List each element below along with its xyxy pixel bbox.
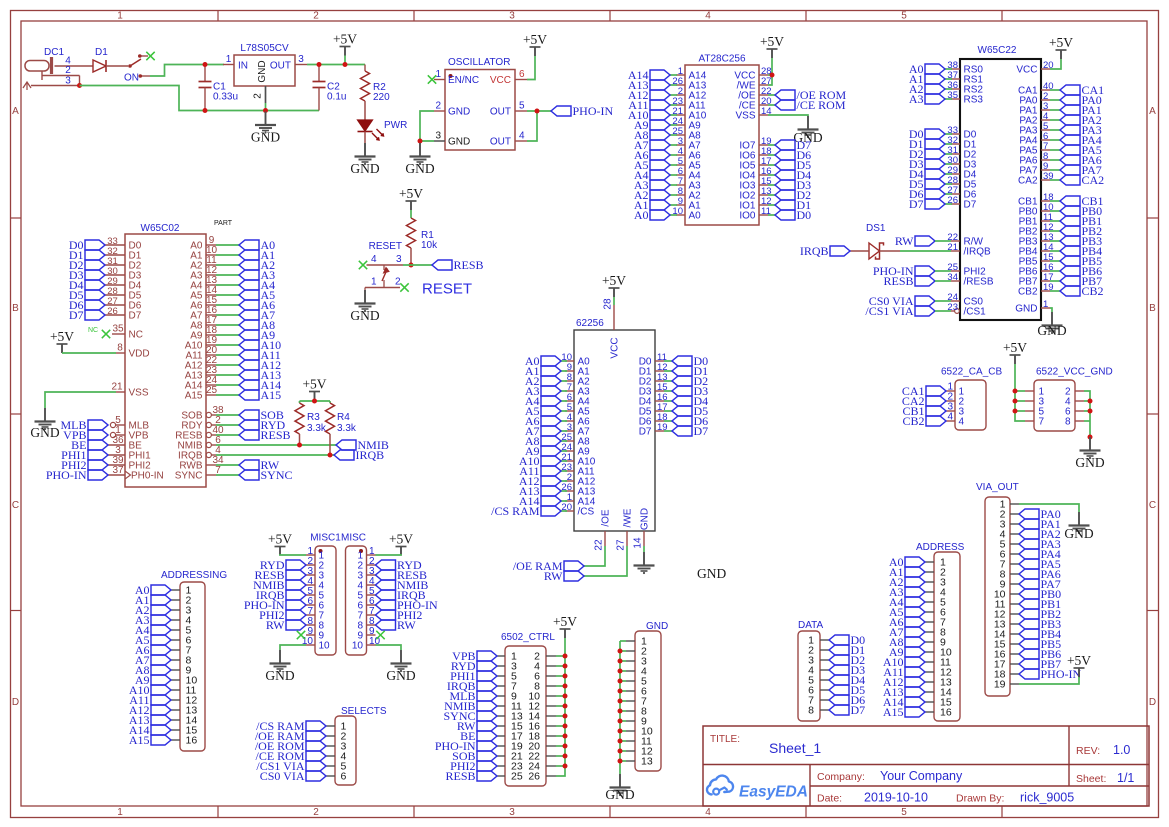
- svg-text:D0: D0: [797, 208, 812, 222]
- wire ground bus: [619, 641, 621, 774]
- pin 5: [497, 671, 517, 683]
- pin 12: [528, 701, 556, 713]
- svg-text:EasyEDA: EasyEDA: [739, 784, 808, 801]
- net flags PA/PB/PHO-IN at VIA_OUT: [1019, 507, 1081, 681]
- pin 1: [808, 635, 829, 647]
- svg-text:3: 3: [298, 54, 304, 65]
- pin 23 (A13): [185, 365, 218, 381]
- pin 8: [1000, 569, 1019, 581]
- net flags D7-D0 at ROM: [775, 138, 811, 222]
- pin 5: [626, 676, 647, 688]
- pin 9: [357, 626, 375, 642]
- pin 13: [925, 677, 952, 689]
- svg-text:2: 2: [435, 101, 441, 112]
- pin 1: [925, 557, 946, 569]
- pin 38 (RS0): [947, 60, 983, 76]
- pin 1 (A14): [676, 66, 707, 82]
- net flag RESB: [432, 258, 484, 272]
- pin 26 (D7): [105, 306, 142, 322]
- pin 3: [1000, 519, 1019, 531]
- pin 2 GND: [434, 101, 470, 118]
- wire DC1 ground rail: [80, 86, 320, 111]
- svg-text:A15: A15: [883, 705, 904, 719]
- pin 7: [1025, 417, 1045, 428]
- svg-text:SYNC: SYNC: [261, 468, 293, 482]
- svg-text:5: 5: [519, 101, 525, 112]
- wire pin1 to +5V: [280, 554, 306, 555]
- svg-text:+5V: +5V: [553, 614, 577, 629]
- pin 8: [171, 655, 192, 667]
- pin 10: [994, 589, 1019, 601]
- pin 31 (D2): [947, 145, 976, 161]
- svg-text:+5V: +5V: [399, 186, 423, 201]
- junction: [203, 62, 208, 67]
- junction: [1088, 435, 1093, 440]
- wires CA/PA pins to flags: [1050, 90, 1060, 180]
- svg-text:Your Company: Your Company: [880, 769, 963, 783]
- wire regulator OUT to +5V rail: [307, 64, 365, 66]
- pin 1: [326, 721, 347, 733]
- pin 2: [925, 567, 946, 579]
- wire +5V to VDD: [62, 352, 116, 354]
- pin 20 (A11): [185, 345, 217, 361]
- ground: [1037, 312, 1066, 338]
- svg-text:IN: IN: [238, 61, 248, 72]
- net flags D0-D7 at DATA: [829, 633, 865, 717]
- no-connect X: [376, 631, 384, 639]
- pin 32 (D1): [105, 246, 142, 262]
- pin 13 (A4): [190, 275, 217, 291]
- pin 35 (NC): [88, 324, 143, 341]
- pin 34 (RWB): [179, 455, 224, 471]
- pin 27 (/WE): [616, 508, 634, 556]
- svg-text:22: 22: [594, 539, 605, 551]
- pin 8 (VDD): [116, 343, 150, 360]
- svg-text:25: 25: [206, 385, 218, 396]
- pin 17 (D5): [639, 402, 668, 418]
- wire IRQB net: [216, 454, 334, 456]
- power +5V: [333, 32, 357, 56]
- pin 6: [808, 685, 829, 697]
- svg-text:GND: GND: [350, 161, 379, 176]
- pin 39 (PHI2): [108, 455, 151, 471]
- svg-text:8: 8: [808, 705, 814, 717]
- svg-text:+5V: +5V: [268, 532, 292, 547]
- pin 2: [1065, 387, 1084, 398]
- svg-text:CB2: CB2: [902, 414, 924, 428]
- pin 11: [626, 736, 652, 748]
- svg-text:3: 3: [396, 254, 402, 265]
- wire pin10 to ground: [280, 645, 306, 650]
- pin 15 (IO3): [739, 176, 771, 192]
- svg-text:DATA: DATA: [798, 620, 824, 631]
- svg-text:0.1u: 0.1u: [327, 92, 346, 103]
- svg-text:A3: A3: [909, 92, 924, 106]
- pin 18: [528, 731, 556, 743]
- pin 10: [925, 647, 952, 659]
- pin 15 (A6): [190, 295, 217, 311]
- pin 12 (D1): [639, 362, 668, 378]
- pin 22 (A12): [185, 355, 218, 371]
- wire ground bus to pins 2 4 6 8: [1084, 391, 1090, 437]
- pin 2: [534, 651, 556, 663]
- svg-text:6522_CA_CB: 6522_CA_CB: [941, 367, 1002, 378]
- pin 22 (R/W): [947, 232, 983, 248]
- pin 1: [1000, 499, 1019, 511]
- pin 16 (D4): [639, 392, 668, 408]
- net flag RW: [544, 569, 584, 583]
- pin 32 (D1): [947, 135, 976, 151]
- svg-text:0.33u: 0.33u: [213, 92, 238, 103]
- svg-text:10: 10: [319, 641, 331, 652]
- pin 4 (IRQB): [178, 445, 221, 461]
- pin 34 (/RESB): [947, 272, 993, 288]
- connector P1 6522_CA_CB: [941, 367, 1002, 431]
- svg-text:8: 8: [1065, 417, 1071, 428]
- svg-text:VSS: VSS: [129, 388, 149, 399]
- pin 6: [171, 635, 192, 647]
- pin 5: [306, 586, 325, 602]
- svg-text:+5V: +5V: [1003, 340, 1027, 355]
- pin 6: [1000, 549, 1019, 561]
- pin 4: [808, 665, 829, 677]
- wire OUT net PHO-IN: [527, 110, 551, 112]
- pin 13 (IO2): [739, 186, 771, 202]
- pin 3: [1025, 397, 1045, 408]
- svg-text:ON: ON: [124, 73, 139, 84]
- pin 7: [925, 617, 946, 629]
- svg-text:A0: A0: [689, 211, 702, 222]
- pin 7: [808, 695, 829, 707]
- svg-text:RESB: RESB: [454, 258, 484, 272]
- ground: [386, 650, 415, 683]
- pin 3 (A7): [565, 422, 590, 438]
- wire DS1 to /IRQB: [900, 250, 951, 252]
- svg-text:1: 1: [435, 69, 441, 80]
- ground: [405, 143, 434, 176]
- pin 4 (A6): [676, 146, 701, 162]
- svg-text:6: 6: [519, 69, 525, 80]
- pin 33 (D0): [947, 125, 976, 141]
- pin 16: [994, 649, 1019, 661]
- connector P3 VIA_OUT: [976, 482, 1019, 696]
- pin 5 (A5): [565, 402, 590, 418]
- net flags A0-A3 at VIA: [909, 62, 952, 106]
- wires CB/PB pins to flags: [1050, 201, 1060, 291]
- wire switch to regulator IN: [150, 65, 224, 77]
- pin 4: [326, 751, 347, 763]
- voltage regulator U1 L78S05CV: [223, 43, 307, 111]
- pin 19 (D7): [639, 422, 668, 438]
- svg-text:AT28C256: AT28C256: [698, 54, 746, 65]
- pin 4 (CB2): [946, 412, 965, 428]
- svg-text:3.3k: 3.3k: [307, 423, 327, 434]
- net flag /OE RAM: [513, 559, 584, 573]
- wires SOB RDY RESB RWB SYNC to flags: [216, 415, 239, 475]
- pin 20 (/CS): [561, 502, 594, 518]
- no-connect X: [359, 261, 367, 269]
- ground: [350, 143, 379, 176]
- pin 10 (A1): [190, 245, 217, 261]
- pin 5: [1025, 407, 1045, 418]
- pin 38 (SOB): [181, 405, 224, 421]
- svg-text:62256: 62256: [576, 318, 604, 329]
- svg-text:25: 25: [511, 771, 523, 783]
- pin 28 (VCC): [734, 66, 771, 82]
- svg-text:/CS RAM: /CS RAM: [491, 504, 540, 518]
- capacitor C1: [199, 65, 239, 111]
- pin 19 (CB2): [1018, 282, 1054, 298]
- pin 11: [171, 685, 197, 697]
- pin 16 (PB6): [1019, 262, 1054, 278]
- svg-text:35: 35: [112, 324, 124, 335]
- svg-text:TITLE:: TITLE:: [710, 734, 740, 745]
- svg-text:/CS1 VIA: /CS1 VIA: [865, 304, 913, 318]
- pin 7: [1000, 559, 1019, 571]
- pin 13: [171, 705, 197, 717]
- oscillator U2: [428, 57, 527, 150]
- pin 1 (VPB): [110, 425, 148, 441]
- pin 3 (PHI1): [108, 445, 151, 461]
- pin 10: [528, 691, 556, 703]
- pin 20: [528, 741, 556, 753]
- pin 16: [171, 735, 197, 747]
- net flag RESB: [883, 274, 935, 288]
- svg-text:C: C: [1149, 500, 1156, 511]
- wire +5V to R3 R4: [314, 400, 316, 403]
- svg-text:IRQB: IRQB: [800, 244, 829, 258]
- pin 11 (A2): [190, 255, 217, 271]
- svg-text:VCC: VCC: [490, 75, 511, 86]
- pin 6: [925, 607, 946, 619]
- svg-text:/CS1: /CS1: [964, 307, 987, 318]
- svg-text:GND: GND: [448, 137, 470, 148]
- net flag PHO-IN: [873, 264, 935, 278]
- power +5V: [302, 377, 326, 401]
- pin 6: [306, 596, 325, 612]
- svg-text:1/1: 1/1: [1117, 771, 1134, 785]
- svg-text:2: 2: [253, 93, 264, 99]
- junction: [263, 108, 268, 113]
- svg-text:3.3k: 3.3k: [337, 423, 357, 434]
- pin 25 (A8): [561, 432, 590, 448]
- svg-text:2: 2: [313, 807, 319, 818]
- pin 1: [171, 585, 192, 597]
- svg-text:Date:: Date:: [817, 793, 842, 805]
- pin 21: [497, 751, 523, 763]
- resistor R2 220: [361, 65, 391, 121]
- wires IO pins to flags: [768, 145, 775, 215]
- svg-text:RW: RW: [266, 618, 285, 632]
- svg-text:26: 26: [528, 771, 540, 783]
- ground: [1064, 512, 1093, 541]
- ground: [634, 552, 655, 574]
- pin 1 (GND): [1015, 299, 1050, 315]
- pin 2: [1000, 509, 1019, 521]
- pin 2: [326, 731, 347, 743]
- pin 14: [994, 629, 1019, 641]
- connector P5 ADDRESS: [916, 542, 965, 721]
- pin 28 (VCC): [603, 298, 621, 359]
- pin 10: [352, 636, 381, 652]
- svg-text:2019-10-10: 2019-10-10: [864, 791, 928, 805]
- svg-text:2: 2: [65, 65, 71, 76]
- svg-text:PART: PART: [214, 220, 233, 227]
- svg-text:PHO-IN: PHO-IN: [573, 104, 614, 118]
- resistor R3 3.3k: [295, 403, 327, 445]
- net flag NMIB: [336, 438, 389, 452]
- svg-text:D: D: [12, 697, 19, 708]
- pin 11 (D0): [639, 352, 667, 368]
- wire pin1 to ground: [1019, 504, 1079, 512]
- pin 3: [626, 656, 647, 668]
- wire VSS to ground: [768, 115, 808, 116]
- wire +5V bus right side: [556, 638, 565, 776]
- svg-text:EN/NC: EN/NC: [448, 75, 479, 86]
- svg-text:27: 27: [616, 539, 627, 551]
- pin 4: [925, 587, 946, 599]
- pin 4: [171, 615, 192, 627]
- pin 25 (A15): [185, 385, 218, 401]
- pin 5: [808, 675, 829, 687]
- svg-text:37: 37: [112, 465, 124, 476]
- pin 28 (D5): [947, 175, 976, 191]
- svg-text:D7: D7: [639, 427, 652, 438]
- power +5V: [1003, 340, 1027, 364]
- svg-text:RESB: RESB: [261, 428, 291, 442]
- pin 8: [1065, 417, 1084, 428]
- svg-text:28: 28: [603, 298, 614, 310]
- svg-text:REV:: REV:: [1076, 745, 1100, 757]
- pin 4: [626, 666, 647, 678]
- wire pin19 to +5V: [1019, 677, 1079, 684]
- power +5V: [602, 273, 626, 297]
- net flags at MISC2: [376, 558, 438, 632]
- pin 23 (A11): [561, 462, 595, 478]
- pin 6: [1065, 407, 1084, 418]
- svg-text:GND: GND: [350, 308, 379, 323]
- svg-text:DC1: DC1: [44, 47, 64, 58]
- pin 19: [497, 741, 523, 753]
- pin 25: [497, 771, 523, 783]
- svg-text:RW: RW: [895, 234, 914, 248]
- net flags SOB RYD RESB RW SYNC: [239, 408, 293, 482]
- pin 25 (A8): [672, 126, 701, 142]
- pin 9: [925, 637, 946, 649]
- pin 4: [1000, 529, 1019, 541]
- pin 5 (MLB): [110, 415, 149, 431]
- pin 24 (A14): [185, 375, 218, 391]
- svg-text:Sheet:: Sheet:: [1076, 773, 1106, 785]
- wires D pins to flags: [664, 361, 672, 431]
- svg-text:Sheet_1: Sheet_1: [769, 740, 821, 756]
- net flag RW: [895, 234, 935, 248]
- svg-text:CA2: CA2: [1082, 173, 1105, 187]
- pin 22 (/OE): [738, 86, 771, 102]
- pin 9: [171, 665, 192, 677]
- svg-text:RESB: RESB: [883, 274, 913, 288]
- power +5V: [1049, 35, 1073, 59]
- junction: [317, 62, 322, 67]
- pin 25 (PHI2): [947, 262, 986, 278]
- ground: [350, 290, 379, 323]
- connector P10 MISC1: [302, 533, 341, 656]
- svg-text:RW: RW: [397, 618, 416, 632]
- pin 13 (D2): [639, 372, 668, 388]
- junction: [770, 73, 775, 78]
- title block: [703, 726, 1149, 806]
- pin 17 (A8): [190, 315, 217, 331]
- pin 17: [994, 659, 1019, 671]
- net flags CA1 CA2 CB1 CB2: [902, 384, 946, 428]
- svg-text:MISC: MISC: [341, 533, 366, 544]
- pin 1 (A14): [565, 492, 596, 508]
- pin 17 (IO5): [739, 156, 771, 172]
- pin 24 (CS0): [947, 292, 983, 308]
- capacitor C2: [313, 65, 347, 111]
- pin 2: [808, 645, 829, 657]
- svg-text:3: 3: [509, 11, 515, 22]
- svg-text:NC: NC: [129, 330, 143, 341]
- pin 14: [171, 715, 197, 727]
- pin 2: [357, 556, 375, 572]
- pin 9: [306, 626, 325, 642]
- pin 2 (A12): [676, 86, 707, 102]
- pin 30 (D3): [947, 155, 976, 171]
- net flags CA1 PA0-PA7 CA2: [1060, 83, 1104, 187]
- no-connect X: [400, 283, 408, 291]
- pin 9 (A1): [565, 362, 590, 378]
- wire +5V to R1: [410, 210, 412, 218]
- svg-text:L78S05CV: L78S05CV: [240, 43, 289, 54]
- svg-text:IO0: IO0: [739, 211, 756, 222]
- ground: [265, 650, 294, 683]
- svg-text:2: 2: [313, 11, 319, 22]
- pin 18 (D6): [639, 412, 668, 428]
- svg-text:6522_VCC_GND: 6522_VCC_GND: [1036, 367, 1113, 378]
- svg-text:B: B: [1149, 303, 1156, 314]
- net flags A14-A0 at ROM: [628, 68, 677, 222]
- svg-text:14: 14: [633, 537, 644, 549]
- power +5V: [523, 32, 547, 56]
- svg-text:A0: A0: [634, 208, 649, 222]
- pin 15: [497, 721, 523, 733]
- no-connect X: [428, 75, 436, 83]
- pin 7: [171, 645, 192, 657]
- pin 6: [357, 596, 375, 612]
- wire pin1 to +5V: [376, 554, 402, 555]
- pin 2 (PA0): [1019, 91, 1050, 107]
- connector P6 DATA: [798, 620, 829, 721]
- junction: [203, 108, 208, 113]
- svg-text:R3: R3: [307, 412, 320, 423]
- no-connect X: [102, 330, 110, 338]
- pin 28 (D5): [105, 286, 142, 302]
- pin 20 (VCC): [1016, 60, 1053, 76]
- svg-text:10: 10: [352, 641, 364, 652]
- connector P2 6522_VCC_GND: [1025, 367, 1113, 432]
- svg-text:+5V: +5V: [389, 532, 413, 547]
- svg-text:OUT: OUT: [270, 61, 291, 72]
- svg-text:A15: A15: [261, 388, 282, 402]
- svg-text:VSS: VSS: [735, 111, 755, 122]
- svg-text:GND: GND: [1064, 526, 1093, 541]
- pin 9 (PA7): [1019, 161, 1050, 177]
- pin 2: [626, 646, 647, 658]
- pin 7 (A3): [565, 382, 590, 398]
- pin 3: [357, 566, 375, 582]
- pin 10 (PB0): [1019, 202, 1054, 218]
